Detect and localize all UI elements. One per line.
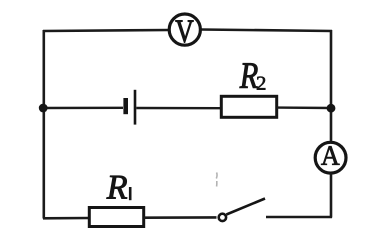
wire: left vertical: [42, 30, 45, 219]
wire: middle right (R2 to node): [277, 106, 331, 109]
wire: bottom middle (R1 to switch): [144, 216, 217, 219]
wire: right vertical lower (ammeter to corner): [330, 173, 333, 218]
switch S1: [219, 199, 265, 222]
voltmeter V1: [169, 14, 200, 45]
wire: top-left horizontal (corner to voltmeter): [43, 30, 169, 31]
resistor R2: [221, 96, 276, 117]
wire: bottom left (corner to R1): [43, 217, 89, 220]
scan smudge artifact: [215, 173, 218, 187]
label R1: [107, 176, 127, 199]
ammeter A1: [315, 142, 346, 173]
wire: bottom right (switch to corner): [266, 216, 332, 219]
label R2: [240, 63, 258, 87]
wire: middle (battery to R2): [136, 107, 221, 110]
wire: middle left (node to battery): [43, 107, 123, 110]
resistor R1: [89, 208, 143, 227]
wire: top-right horizontal (voltmeter to corner): [201, 30, 332, 32]
node right junction: [327, 104, 336, 113]
node left junction: [39, 104, 48, 113]
wire: right vertical upper (corner to ammeter): [330, 30, 333, 143]
battery cell: [123, 90, 136, 125]
